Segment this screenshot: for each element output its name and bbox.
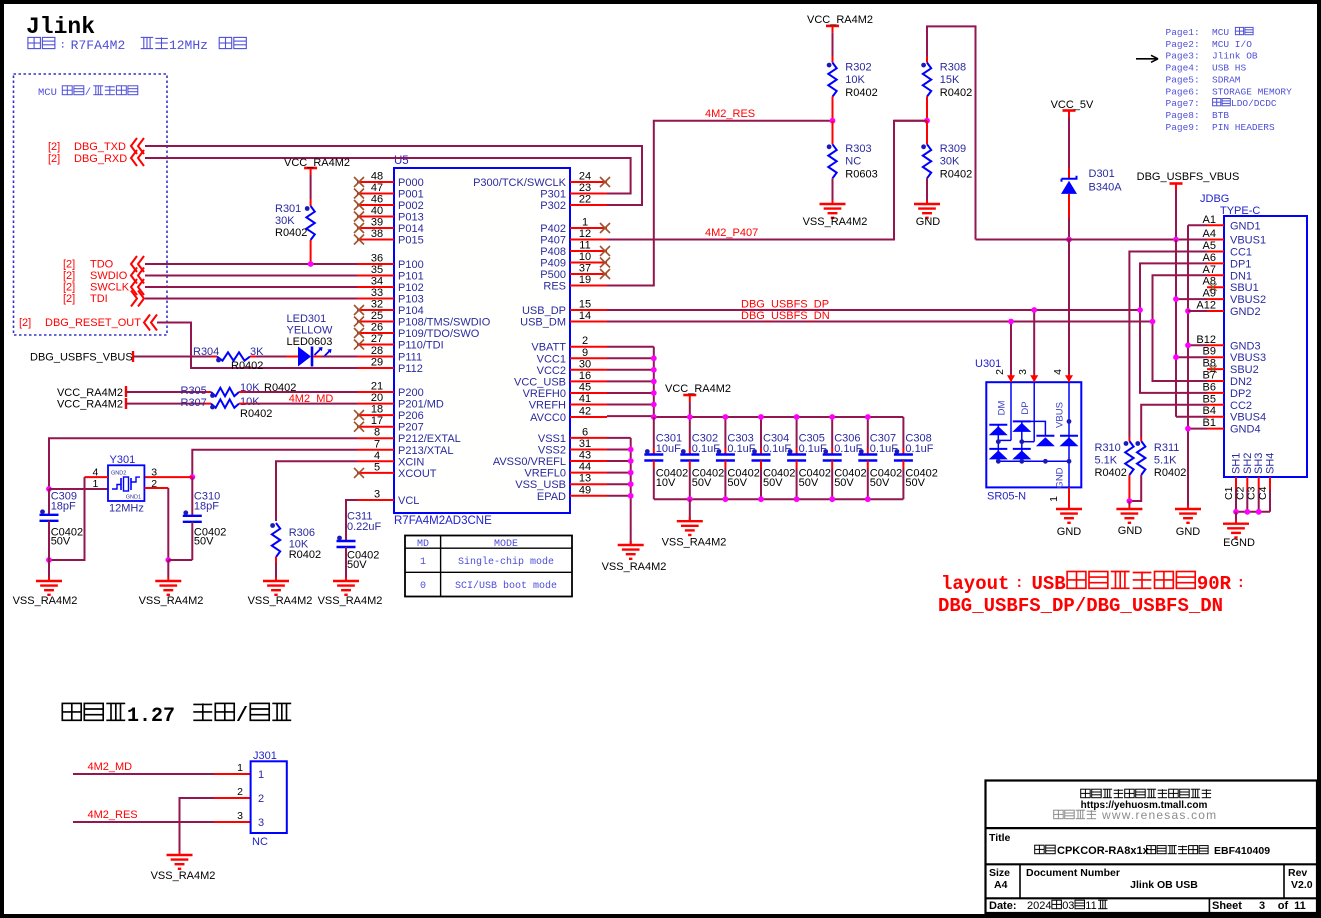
svg-text:[2]: [2] bbox=[63, 293, 75, 305]
svg-text:15: 15 bbox=[579, 299, 591, 311]
wire DBG_USBFS_DP bbox=[607, 309, 1140, 311]
diode D301 bbox=[1062, 176, 1077, 182]
svg-text:SH3: SH3 bbox=[1253, 453, 1265, 474]
svg-text:B9: B9 bbox=[1203, 346, 1216, 358]
U301 pin 3 DP bbox=[1033, 374, 1035, 382]
ground VSS_RA4M2 under R303 bbox=[832, 200, 834, 204]
svg-text:VCC_RA4M2: VCC_RA4M2 bbox=[284, 157, 350, 169]
resistor R306 bbox=[272, 523, 280, 557]
junction GND2 bbox=[1185, 308, 1191, 314]
svg-text:27: 27 bbox=[371, 333, 383, 345]
wire R307 to P201/MD bbox=[239, 403, 245, 405]
svg-text:R303: R303 bbox=[845, 143, 871, 155]
wire cap bottom bus bbox=[654, 498, 904, 500]
svg-text:R7FA4M2: R7FA4M2 bbox=[71, 38, 126, 53]
ground GND under TYPE-C bbox=[1187, 505, 1189, 509]
U5 pin 47 P001 bbox=[357, 193, 394, 195]
wire VBUS3 row bbox=[1176, 356, 1207, 358]
U5 pin 46 P002 bbox=[357, 204, 394, 206]
svg-text:P100: P100 bbox=[398, 259, 424, 271]
resistor R308 bbox=[923, 63, 931, 97]
svg-text:50V: 50V bbox=[727, 477, 747, 489]
svg-text:B6: B6 bbox=[1203, 381, 1216, 393]
wire VSS_USB to bus bbox=[607, 483, 631, 485]
svg-text:DBG_USBFS_DP/DBG_USBFS_DN: DBG_USBFS_DP/DBG_USBFS_DN bbox=[938, 595, 1223, 617]
svg-text:12: 12 bbox=[579, 228, 591, 240]
svg-text:R0402: R0402 bbox=[940, 87, 972, 99]
svg-text:VREFH: VREFH bbox=[529, 400, 566, 412]
wire DP1-DP2 vertical bbox=[1140, 263, 1207, 393]
svg-text:[2]: [2] bbox=[63, 259, 75, 271]
svg-text:Sheet: Sheet bbox=[1212, 900, 1242, 912]
junction vcc bus bbox=[651, 402, 657, 408]
junction vss bus bbox=[628, 470, 634, 476]
wire USBFS_VBUS down bbox=[1175, 190, 1177, 240]
U5 pin 22 P302 bbox=[570, 204, 607, 206]
resistor R311 bbox=[1137, 441, 1145, 475]
svg-text:DBG_RESET_OUT: DBG_RESET_OUT bbox=[45, 317, 141, 329]
svg-text:P409: P409 bbox=[540, 258, 566, 270]
U5 pin 6 VSS1 bbox=[570, 437, 607, 439]
U5 pin 27 P110/TDI bbox=[357, 344, 394, 346]
wire DBG_RESET_OUT to P112 bbox=[157, 323, 357, 369]
wire R305 to P200 bbox=[239, 391, 245, 393]
ground VSS_RA4M2 under R306 bbox=[275, 577, 277, 581]
svg-text:18pF: 18pF bbox=[51, 501, 76, 513]
svg-text:2: 2 bbox=[582, 335, 588, 347]
svg-text:VBUS4: VBUS4 bbox=[1230, 412, 1266, 424]
wire VREFH to bus bbox=[607, 404, 654, 406]
svg-text:A9: A9 bbox=[1203, 288, 1216, 300]
junction C303 bottom bbox=[723, 496, 729, 502]
junction C307 bottom bbox=[865, 496, 871, 502]
svg-text:GND3: GND3 bbox=[1230, 340, 1261, 352]
svg-text:33: 33 bbox=[371, 287, 383, 299]
svg-text:GND2: GND2 bbox=[1230, 306, 1261, 318]
wire 4M2_MD to J301 bbox=[73, 773, 214, 775]
U5 pin 21 P200 bbox=[357, 391, 394, 393]
svg-text:VREFH0: VREFH0 bbox=[523, 388, 566, 400]
capacitor C310 bbox=[191, 477, 193, 516]
U5 pin 1 P402 bbox=[570, 227, 607, 229]
svg-text:4M2_P407: 4M2_P407 bbox=[705, 227, 758, 239]
TYPE-C pin B12 GND3 bbox=[1207, 344, 1224, 346]
svg-text:DP: DP bbox=[1020, 401, 1031, 414]
U5 pin 12 P407 bbox=[570, 239, 607, 241]
svg-text:YELLOW: YELLOW bbox=[287, 325, 333, 337]
U5 pin 48 P000 bbox=[357, 181, 394, 183]
svg-text:0.1uF: 0.1uF bbox=[870, 443, 898, 455]
svg-text:39: 39 bbox=[371, 217, 383, 229]
wire P212/EXTAL to crystal node bbox=[49, 438, 357, 489]
junction vss bus bbox=[628, 493, 634, 499]
ground VSS_RA4M2 under C309 bbox=[48, 577, 50, 581]
svg-text:A4: A4 bbox=[994, 879, 1008, 891]
wire VCC to R302 bbox=[832, 33, 834, 56]
svg-text:42: 42 bbox=[579, 406, 591, 418]
svg-text:10V: 10V bbox=[656, 477, 676, 489]
svg-text:VCC1: VCC1 bbox=[537, 353, 566, 365]
svg-text:1: 1 bbox=[582, 217, 588, 229]
svg-text:0.22uF: 0.22uF bbox=[347, 521, 382, 533]
wire crystal pin4 to gnd rail bbox=[49, 477, 85, 560]
junction C302 bottom bbox=[687, 496, 693, 502]
svg-text:DN1: DN1 bbox=[1230, 270, 1252, 282]
U301 pin 4 VBUS bbox=[1068, 374, 1070, 382]
svg-text:Page7:: Page7: bbox=[1166, 98, 1200, 109]
wire R304 to LED301 bbox=[250, 356, 256, 358]
TYPE-C pin A5 CC1 bbox=[1207, 251, 1224, 253]
svg-text:2024: 2024 bbox=[1027, 900, 1051, 912]
svg-text:R0402: R0402 bbox=[231, 360, 263, 372]
TYPE-C pin A4 VBUS1 bbox=[1207, 239, 1224, 241]
svg-text:Date:: Date: bbox=[989, 900, 1017, 912]
wire SWCLK to P102 bbox=[145, 286, 357, 288]
U5 pin 7 P213/XTAL bbox=[357, 449, 394, 451]
svg-text:layout: layout bbox=[941, 573, 1009, 595]
svg-text:35: 35 bbox=[371, 264, 383, 276]
U5 pin 3 VCL bbox=[357, 499, 394, 501]
TYPE-C pin A8 SBU1 bbox=[1207, 286, 1224, 288]
svg-text:EGND: EGND bbox=[1223, 537, 1255, 549]
junction P407 divider bbox=[924, 118, 930, 124]
capacitor C308 bbox=[902, 417, 904, 448]
wire R308 top to VBUS rail bbox=[926, 56, 928, 63]
svg-text:4M2_RES: 4M2_RES bbox=[88, 809, 138, 821]
svg-text:P207: P207 bbox=[398, 422, 424, 434]
wire GND1 bus bbox=[1187, 225, 1189, 509]
svg-text:DBG_USBFS_VBUS: DBG_USBFS_VBUS bbox=[1137, 171, 1240, 183]
svg-text:R302: R302 bbox=[845, 62, 871, 74]
junction VBUS2 bbox=[1173, 296, 1179, 302]
junction SH2 bbox=[1244, 509, 1250, 515]
wire LED301 to P111 bbox=[313, 356, 321, 358]
svg-text:GND4: GND4 bbox=[1230, 424, 1261, 436]
svg-text:P014: P014 bbox=[398, 223, 424, 235]
U5 pin 33 P103 bbox=[357, 298, 394, 300]
svg-text:GND: GND bbox=[916, 216, 941, 228]
svg-text:DN2: DN2 bbox=[1230, 376, 1252, 388]
svg-text:P000: P000 bbox=[398, 177, 424, 189]
svg-text:V2.0: V2.0 bbox=[1291, 879, 1313, 891]
svg-text:B5: B5 bbox=[1203, 393, 1216, 405]
wire C310 bottom rail bbox=[168, 559, 192, 561]
svg-text:SH1: SH1 bbox=[1231, 453, 1243, 474]
svg-text:R301: R301 bbox=[275, 203, 301, 215]
TYPE-C pin B1 GND4 bbox=[1207, 428, 1224, 430]
svg-text:CPKCOR-RA8x1x: CPKCOR-RA8x1x bbox=[1057, 845, 1150, 857]
svg-text:10K: 10K bbox=[845, 74, 865, 86]
svg-text:5.1K: 5.1K bbox=[1154, 455, 1177, 467]
TYPE-C pin B4 VBUS4 bbox=[1207, 416, 1224, 418]
svg-text:GND: GND bbox=[1176, 526, 1201, 538]
junction vss bus bbox=[628, 447, 634, 453]
U301 pin 2 DM bbox=[1010, 374, 1012, 382]
power VCC_RA4M2 above R302 bbox=[826, 25, 839, 28]
svg-text:P102: P102 bbox=[398, 282, 424, 294]
svg-text:3: 3 bbox=[151, 467, 157, 479]
svg-text:/: / bbox=[236, 705, 248, 728]
junction C305 bottom bbox=[794, 496, 800, 502]
svg-text:DBG_TXD: DBG_TXD bbox=[74, 141, 126, 153]
wire VCC to cap bus bbox=[689, 402, 691, 417]
wire VCC2 to bus bbox=[607, 369, 654, 371]
junction C306 top bbox=[829, 414, 835, 420]
wire CC1 vertical bbox=[1129, 252, 1207, 438]
svg-text:A4: A4 bbox=[1203, 228, 1216, 240]
wire GND4 row bbox=[1188, 428, 1207, 430]
svg-text:CC1: CC1 bbox=[1230, 247, 1252, 259]
wire GND1 row bbox=[1188, 224, 1207, 226]
svg-text:17: 17 bbox=[371, 415, 383, 427]
wire TDO to P100 bbox=[145, 263, 357, 265]
svg-text:1: 1 bbox=[1048, 496, 1060, 502]
svg-text:P302: P302 bbox=[540, 200, 566, 212]
svg-text:3: 3 bbox=[1017, 369, 1029, 375]
svg-text:USB: USB bbox=[1031, 573, 1065, 595]
svg-text:49: 49 bbox=[579, 484, 591, 496]
svg-text:1.27: 1.27 bbox=[127, 705, 175, 728]
U5 pin 32 P104 bbox=[357, 309, 394, 311]
svg-text:P013: P013 bbox=[398, 212, 424, 224]
svg-text:MCU: MCU bbox=[38, 87, 57, 99]
U5 pin 25 P108/TMS/SWDIO bbox=[357, 321, 394, 323]
wire AVCC0 to bus bbox=[607, 415, 654, 417]
svg-text:19: 19 bbox=[579, 274, 591, 286]
U5 pin 23 P301 bbox=[570, 193, 607, 195]
svg-text:50V: 50V bbox=[799, 477, 819, 489]
ground VSS_RA4M2 under crystal bbox=[167, 577, 169, 581]
wire node to crystal pin1 bbox=[49, 488, 108, 490]
U5 pin 35 P101 bbox=[357, 275, 394, 277]
wire divider to P407 net bbox=[894, 120, 927, 122]
svg-text:P110/TDI: P110/TDI bbox=[398, 340, 444, 352]
wire VCC to R307 bbox=[126, 403, 205, 405]
junction C304 top bbox=[758, 414, 764, 420]
svg-text:XCIN: XCIN bbox=[398, 456, 424, 468]
U5 pin 9 VCC1 bbox=[570, 357, 607, 359]
svg-text:50V: 50V bbox=[692, 477, 712, 489]
svg-text:NC: NC bbox=[845, 156, 861, 168]
resistor R310 bbox=[1125, 441, 1133, 475]
junction C305 top bbox=[794, 414, 800, 420]
ground VSS_RA4M2 under EPAD bus bbox=[630, 541, 632, 545]
U5 pin 29 P112 bbox=[357, 367, 394, 369]
svg-text:24: 24 bbox=[579, 171, 591, 183]
svg-text:R0402: R0402 bbox=[940, 169, 972, 181]
junction R310/R311 gnd bbox=[1127, 498, 1133, 504]
junction C302 top bbox=[687, 414, 693, 420]
svg-text:45: 45 bbox=[579, 382, 591, 394]
U5 pin 4 XCIN bbox=[357, 460, 394, 462]
company name bbox=[1081, 789, 1091, 798]
svg-text:C2: C2 bbox=[1234, 486, 1246, 500]
svg-text:U301: U301 bbox=[975, 358, 1001, 370]
U5 pin 18 P206 bbox=[357, 414, 394, 416]
svg-text:VCL: VCL bbox=[398, 495, 419, 507]
resistor R304 bbox=[217, 352, 250, 360]
U5 pin 30 VCC2 bbox=[570, 369, 607, 371]
wire XCIN to R306 bbox=[276, 461, 357, 521]
junction C309 gnd bbox=[46, 557, 52, 563]
svg-text:12MHz: 12MHz bbox=[109, 503, 144, 515]
wire VREFH0 to bus bbox=[607, 392, 654, 394]
junction vcc bus bbox=[651, 367, 657, 373]
svg-text:www.renesas.com: www.renesas.com bbox=[1101, 808, 1217, 822]
wire CC2 to R311 bbox=[1141, 405, 1207, 437]
svg-text:USB_DP: USB_DP bbox=[522, 305, 566, 317]
wire EPAD to bus bbox=[607, 495, 631, 497]
svg-text:0.1uF: 0.1uF bbox=[834, 443, 862, 455]
TYPE-C pin A6 DP1 bbox=[1207, 262, 1224, 264]
wire VSS1 to bus bbox=[607, 437, 631, 439]
wire VCL to C311 bbox=[346, 500, 357, 541]
sheet title text bbox=[1035, 845, 1045, 854]
svg-text:MCU: MCU bbox=[1212, 27, 1229, 38]
junction 4M2_RES divider bbox=[830, 118, 836, 124]
junction GND4 bbox=[1185, 426, 1191, 432]
wire 4M2_RES net bbox=[607, 121, 833, 286]
svg-text:28: 28 bbox=[371, 345, 383, 357]
svg-text:SBU1: SBU1 bbox=[1230, 282, 1259, 294]
wire 4M2_RES to J301 bbox=[73, 821, 214, 823]
U5 pin 45 VREFH0 bbox=[570, 392, 607, 394]
U5 pin 8 P212/EXTAL bbox=[357, 437, 394, 439]
wire 4M2_P407 net bbox=[607, 121, 927, 240]
svg-text:2: 2 bbox=[994, 369, 1006, 375]
svg-text:P015: P015 bbox=[398, 235, 424, 247]
svg-text:40: 40 bbox=[371, 205, 383, 217]
junction D301/VBUS bbox=[1066, 237, 1072, 243]
svg-text:38: 38 bbox=[371, 228, 383, 240]
svg-text:DP1: DP1 bbox=[1230, 258, 1251, 270]
svg-text:Single-chip mode: Single-chip mode bbox=[458, 556, 554, 568]
svg-text:50V: 50V bbox=[51, 536, 71, 548]
svg-text:0: 0 bbox=[420, 581, 426, 592]
title block frame bbox=[986, 781, 1318, 914]
svg-text:P112: P112 bbox=[398, 363, 423, 375]
svg-text:SR05-N: SR05-N bbox=[987, 491, 1026, 503]
U5 pin 5 XCOUT bbox=[357, 472, 394, 474]
svg-text:RES: RES bbox=[543, 281, 566, 293]
dashed box MCU debug connector bbox=[14, 74, 168, 335]
svg-text:R308: R308 bbox=[940, 62, 966, 74]
U5 pin 34 P102 bbox=[357, 286, 394, 288]
svg-text:R306: R306 bbox=[289, 527, 315, 539]
note text bbox=[28, 37, 41, 48]
svg-text:44: 44 bbox=[579, 461, 591, 473]
svg-text:R309: R309 bbox=[940, 143, 966, 155]
svg-text:R0402: R0402 bbox=[1154, 467, 1186, 479]
svg-text:USB_DM: USB_DM bbox=[520, 317, 566, 329]
svg-text:11: 11 bbox=[1294, 900, 1306, 912]
svg-text:DBG_RXD: DBG_RXD bbox=[74, 153, 127, 165]
svg-text:D301: D301 bbox=[1089, 168, 1115, 180]
svg-text:P402: P402 bbox=[540, 223, 566, 235]
wire DM to U301 bbox=[1010, 322, 1012, 375]
wire GND3 row bbox=[1188, 344, 1207, 346]
svg-text:P109/TDO/SWO: P109/TDO/SWO bbox=[398, 328, 480, 340]
svg-text:Size: Size bbox=[989, 867, 1010, 879]
svg-text:VSS_RA4M2: VSS_RA4M2 bbox=[318, 595, 383, 607]
U301 internal diodes bbox=[1010, 382, 1012, 440]
wire SWDIO to P101 bbox=[145, 275, 357, 277]
svg-text:5.1K: 5.1K bbox=[1095, 455, 1118, 467]
svg-text:1: 1 bbox=[92, 478, 98, 490]
svg-text:10: 10 bbox=[579, 251, 591, 263]
svg-text:LED301: LED301 bbox=[287, 313, 327, 325]
svg-text:[2]: [2] bbox=[48, 141, 60, 153]
svg-text:PIN HEADERS: PIN HEADERS bbox=[1212, 122, 1275, 133]
svg-text:VSS_RA4M2: VSS_RA4M2 bbox=[662, 537, 727, 549]
junction DM/U301 bbox=[1008, 319, 1014, 325]
junction vcc bus bbox=[651, 355, 657, 361]
svg-text:MD: MD bbox=[417, 539, 429, 550]
svg-text:3: 3 bbox=[374, 489, 380, 501]
svg-text:GND1: GND1 bbox=[1230, 220, 1261, 232]
U5 pin 37 P500 bbox=[570, 273, 607, 275]
svg-text:03: 03 bbox=[1062, 900, 1074, 912]
svg-text:GND: GND bbox=[1118, 525, 1143, 537]
svg-text:SH2: SH2 bbox=[1242, 453, 1254, 474]
svg-text:VCC_RA4M2: VCC_RA4M2 bbox=[57, 387, 123, 399]
svg-text:EBF410409: EBF410409 bbox=[1214, 845, 1270, 857]
svg-text:9: 9 bbox=[582, 347, 588, 359]
svg-text:P103: P103 bbox=[398, 294, 424, 306]
svg-text:11: 11 bbox=[579, 240, 590, 252]
svg-text:7: 7 bbox=[374, 438, 380, 450]
svg-text:Rev: Rev bbox=[1288, 867, 1307, 879]
svg-text:3: 3 bbox=[237, 810, 243, 822]
wire shield bus bbox=[1236, 511, 1270, 513]
svg-text:C4: C4 bbox=[1257, 486, 1269, 500]
svg-text:P111: P111 bbox=[398, 352, 422, 364]
svg-text:R307: R307 bbox=[181, 397, 207, 409]
svg-text:B7: B7 bbox=[1203, 370, 1216, 382]
TYPE-C pin A1 GND1 bbox=[1207, 224, 1224, 226]
U5 pin 42 AVCC0 bbox=[570, 416, 607, 418]
resistor R301 bbox=[306, 206, 314, 240]
junction VBUS/USBFS bbox=[1173, 237, 1179, 243]
svg-text:14: 14 bbox=[579, 310, 591, 322]
svg-text:VSS_RA4M2: VSS_RA4M2 bbox=[248, 595, 313, 607]
wire VCC to R305 bbox=[126, 391, 205, 393]
svg-text:A6: A6 bbox=[1203, 252, 1216, 264]
junction vcc bus bbox=[651, 379, 657, 385]
svg-text:2: 2 bbox=[237, 786, 243, 798]
svg-text:3: 3 bbox=[258, 817, 264, 829]
TYPE-C pin B8 SBU2 bbox=[1207, 368, 1224, 370]
svg-text:47: 47 bbox=[371, 182, 383, 194]
svg-text:Page5:: Page5: bbox=[1166, 74, 1200, 85]
capacitor C303 bbox=[724, 417, 726, 448]
wire cap top bus bbox=[654, 416, 904, 418]
svg-text:VSS_RA4M2: VSS_RA4M2 bbox=[803, 216, 868, 228]
ground GND under U301 bbox=[1068, 505, 1070, 509]
wire VCC_USB to bus bbox=[607, 380, 654, 382]
svg-text:R0402: R0402 bbox=[845, 87, 877, 99]
svg-text:SCI/USB boot mode: SCI/USB boot mode bbox=[455, 580, 557, 592]
svg-text:Page3:: Page3: bbox=[1166, 51, 1200, 62]
ground EGND bbox=[1235, 520, 1237, 524]
svg-text:VSS_RA4M2: VSS_RA4M2 bbox=[602, 561, 667, 573]
svg-text:MCU I/O: MCU I/O bbox=[1212, 39, 1252, 50]
svg-text:XCOUT: XCOUT bbox=[398, 468, 437, 480]
svg-text:LDO/DCDC: LDO/DCDC bbox=[1231, 98, 1277, 109]
ground VSS_RA4M2 under J301 bbox=[179, 851, 181, 855]
svg-text:R7FA4M2AD3CNE: R7FA4M2AD3CNE bbox=[394, 515, 492, 527]
svg-text:GND: GND bbox=[1055, 467, 1066, 488]
